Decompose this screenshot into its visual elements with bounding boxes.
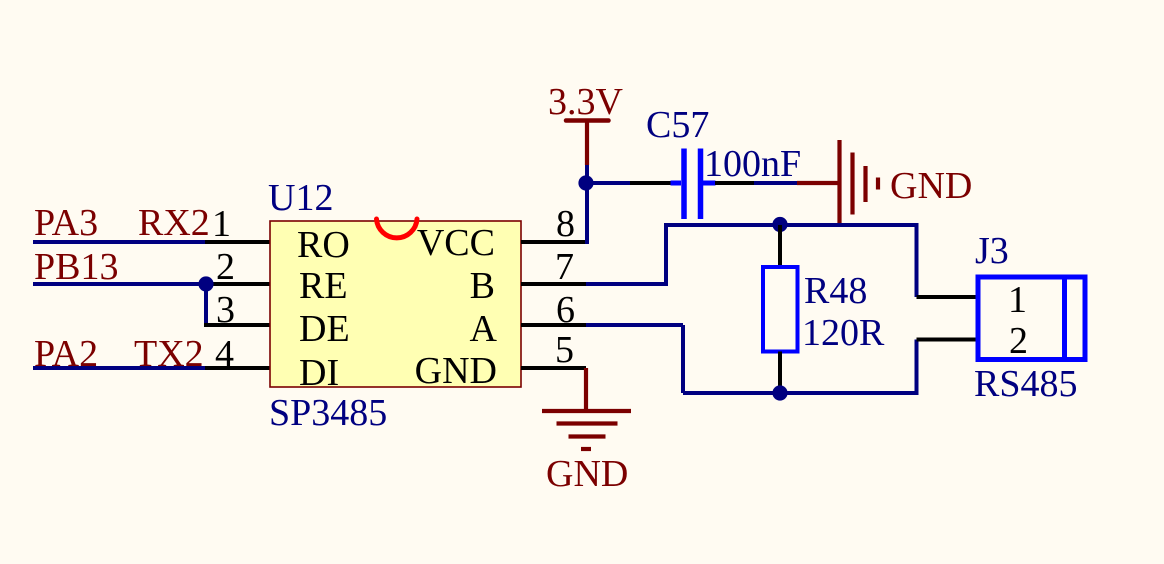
svg-text:DI: DI bbox=[299, 352, 339, 394]
wire top rail to J3 pin 1 bbox=[917, 223, 979, 297]
svg-text:PA2: PA2 bbox=[34, 333, 98, 375]
wire R48 bottom lead bbox=[778, 352, 782, 394]
svg-text:VCC: VCC bbox=[417, 222, 495, 264]
junction bottom rail / R48 bbox=[772, 385, 787, 400]
junction top rail / R48 bbox=[772, 217, 787, 232]
svg-text:3: 3 bbox=[216, 289, 235, 331]
wire C57 to GND stub bbox=[715, 181, 799, 185]
svg-text:B: B bbox=[470, 265, 495, 307]
svg-text:100nF: 100nF bbox=[704, 143, 801, 185]
svg-text:PB13: PB13 bbox=[34, 246, 118, 288]
svg-text:RX2: RX2 bbox=[138, 202, 210, 244]
wire U12 pin 8 to VCC junction bbox=[521, 163, 587, 244]
power symbol 3.3V bbox=[566, 121, 609, 166]
svg-text:SP3485: SP3485 bbox=[269, 392, 387, 434]
IC notch arc bbox=[377, 219, 418, 238]
svg-text:1: 1 bbox=[1008, 279, 1027, 321]
svg-text:7: 7 bbox=[555, 246, 574, 288]
wire bottom rail to J3 pin 2 bbox=[917, 340, 979, 396]
svg-text:RE: RE bbox=[299, 265, 348, 307]
IC U12 body bbox=[270, 221, 521, 387]
svg-text:J3: J3 bbox=[975, 230, 1009, 272]
wire PA3/RX2 net to U12 pin 1 bbox=[33, 240, 270, 244]
svg-text:120R: 120R bbox=[802, 312, 885, 354]
svg-text:8: 8 bbox=[556, 203, 575, 245]
wire R48 top lead bbox=[778, 225, 782, 267]
svg-text:1: 1 bbox=[212, 203, 231, 245]
svg-text:5: 5 bbox=[555, 329, 574, 371]
connector J3 body bbox=[978, 277, 1085, 360]
svg-text:R48: R48 bbox=[804, 270, 867, 312]
svg-text:RS485: RS485 bbox=[974, 363, 1077, 405]
svg-text:2: 2 bbox=[1009, 320, 1028, 362]
power GND symbol bottom bbox=[542, 368, 631, 449]
capacitor C57 bbox=[671, 149, 716, 220]
svg-text:TX2: TX2 bbox=[134, 333, 204, 375]
junction PB13 branch node bbox=[198, 276, 213, 291]
svg-text:3.3V: 3.3V bbox=[548, 81, 624, 123]
svg-text:GND: GND bbox=[546, 453, 628, 495]
resistor R48 body bbox=[763, 267, 798, 352]
svg-text:DE: DE bbox=[299, 308, 350, 350]
junction VCC node bbox=[578, 175, 593, 190]
svg-text:GND: GND bbox=[415, 350, 497, 392]
wire VCC junction to C57 bbox=[587, 181, 672, 185]
wire A net: U12 pin 6 to bottom rail bbox=[521, 325, 917, 393]
power GND symbol right bbox=[797, 140, 878, 225]
svg-text:GND: GND bbox=[890, 165, 972, 207]
svg-text:RO: RO bbox=[297, 224, 350, 266]
wire B net: U12 pin 7 to top rail bbox=[521, 225, 917, 286]
wire PA2/TX2 net to U12 pin 4 bbox=[33, 366, 270, 370]
wire PB13 net to U12 pin 2 and pin 3 branch bbox=[33, 282, 270, 325]
svg-text:A: A bbox=[470, 308, 498, 350]
svg-text:PA3: PA3 bbox=[34, 202, 98, 244]
svg-text:C57: C57 bbox=[646, 104, 709, 146]
svg-text:2: 2 bbox=[216, 246, 235, 288]
wire U12 pin 5 to GND bbox=[521, 366, 586, 370]
svg-text:U12: U12 bbox=[268, 177, 333, 219]
svg-text:4: 4 bbox=[215, 333, 234, 375]
